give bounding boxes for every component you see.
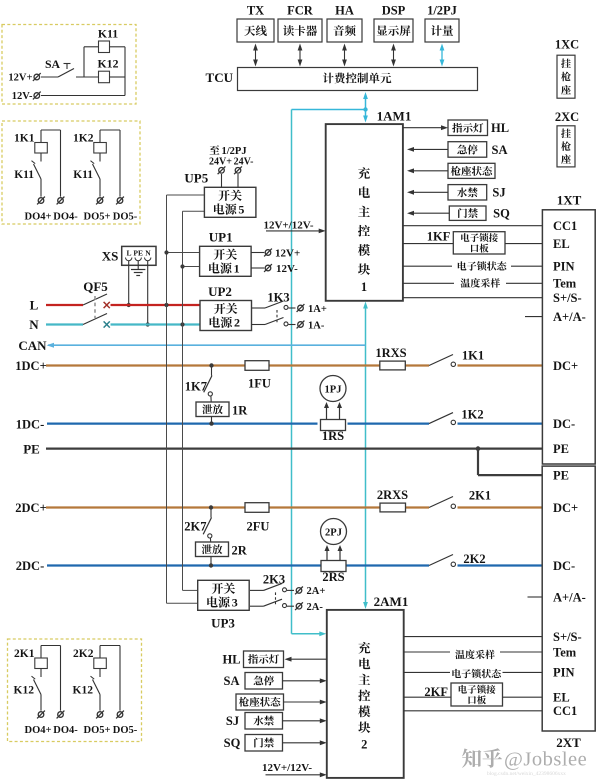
svg-text:2AM1: 2AM1 [374, 594, 409, 609]
svg-text:1A-: 1A- [308, 320, 325, 331]
svg-text:2PJ: 2PJ [325, 527, 342, 538]
svg-text:DSP: DSP [382, 4, 406, 18]
svg-text:1DC+: 1DC+ [15, 359, 46, 373]
svg-text:DC-: DC- [553, 559, 575, 573]
svg-text:1PJ: 1PJ [325, 384, 342, 395]
svg-text:12V+: 12V+ [275, 248, 300, 260]
svg-text:2RXS: 2RXS [377, 488, 408, 502]
svg-text:CC1: CC1 [553, 704, 577, 718]
svg-text:1RS: 1RS [322, 429, 344, 443]
svg-text:HA: HA [335, 4, 354, 18]
svg-text:S+/S-: S+/S- [553, 291, 582, 305]
svg-text:EL: EL [553, 237, 570, 251]
svg-text:2K1: 2K1 [469, 489, 491, 503]
svg-text:UP2: UP2 [208, 284, 232, 299]
svg-text:2FU: 2FU [247, 520, 270, 534]
svg-text:FCR: FCR [287, 4, 314, 18]
svg-text:1DC-: 1DC- [16, 417, 44, 431]
svg-text:PE: PE [553, 468, 569, 482]
svg-text:12V-: 12V- [12, 91, 33, 102]
svg-text:DC+: DC+ [553, 501, 578, 515]
svg-text:1XC: 1XC [555, 38, 579, 52]
svg-text:2A+: 2A+ [307, 586, 326, 597]
svg-text:SA: SA [45, 57, 61, 71]
svg-text:2: 2 [361, 738, 367, 752]
svg-text:1: 1 [361, 280, 367, 294]
svg-text:L: L [30, 298, 39, 313]
svg-text:12V-: 12V- [276, 263, 298, 275]
svg-text:K11: K11 [73, 169, 93, 181]
svg-text:1K2: 1K2 [461, 408, 483, 422]
svg-text:1XT: 1XT [557, 192, 582, 207]
svg-text:DO4-: DO4- [53, 212, 78, 223]
svg-text:1KF: 1KF [427, 230, 451, 244]
svg-text:SA: SA [492, 143, 508, 157]
svg-text:24V-: 24V- [234, 156, 254, 167]
svg-text:DO5+: DO5+ [84, 725, 111, 736]
svg-text:1RXS: 1RXS [375, 346, 406, 360]
svg-text:1K1: 1K1 [14, 133, 35, 145]
svg-text:A+/A-: A+/A- [553, 310, 586, 324]
svg-text:1A+: 1A+ [308, 304, 327, 315]
svg-text:1R: 1R [232, 404, 248, 418]
svg-text:PE: PE [553, 442, 569, 456]
svg-text:1K2: 1K2 [73, 133, 94, 145]
svg-text:PIN: PIN [553, 260, 575, 274]
svg-text:QF5: QF5 [83, 279, 108, 294]
svg-text:3: 3 [232, 596, 238, 610]
svg-text:K11: K11 [98, 27, 118, 41]
svg-text:HL: HL [491, 121, 509, 135]
svg-text:A+/A-: A+/A- [553, 590, 586, 604]
svg-text:DO4+: DO4+ [25, 725, 52, 736]
svg-text:2K3: 2K3 [263, 573, 285, 587]
svg-text:DC-: DC- [553, 417, 575, 431]
svg-text:UP5: UP5 [184, 171, 208, 186]
svg-text:SQ: SQ [224, 736, 241, 750]
svg-text:UP1: UP1 [209, 229, 233, 244]
svg-text:DO4+: DO4+ [25, 212, 52, 223]
svg-text:DO5+: DO5+ [84, 212, 111, 223]
svg-text:N: N [29, 317, 39, 332]
svg-text:XS: XS [102, 249, 119, 264]
svg-text:UP3: UP3 [211, 616, 235, 631]
svg-text:DC+: DC+ [553, 359, 578, 373]
svg-text:K12: K12 [73, 685, 94, 697]
svg-text:@Jobslee: @Jobslee [504, 749, 587, 771]
svg-text:2A-: 2A- [307, 602, 324, 613]
svg-text:2DC-: 2DC- [16, 559, 44, 573]
svg-text:L: L [126, 248, 131, 257]
svg-text:blog.csdn.net/weixin_42398606x: blog.csdn.net/weixin_42398606xxx [487, 771, 566, 777]
svg-text:24V+: 24V+ [209, 156, 232, 167]
svg-text:1AM1: 1AM1 [377, 109, 412, 124]
svg-text:2XC: 2XC [555, 110, 579, 124]
svg-text:5: 5 [238, 203, 244, 217]
svg-text:Tem: Tem [553, 645, 577, 659]
svg-text:SJ: SJ [226, 714, 239, 728]
svg-text:CC1: CC1 [553, 219, 577, 233]
svg-text:DO4-: DO4- [53, 725, 78, 736]
svg-text:12V+/12V-: 12V+/12V- [263, 219, 313, 231]
svg-text:DO5-: DO5- [113, 725, 138, 736]
svg-text:SQ: SQ [493, 207, 510, 221]
svg-text:K11: K11 [14, 169, 34, 181]
svg-text:2K1: 2K1 [14, 648, 35, 660]
svg-text:TX: TX [247, 4, 264, 18]
svg-text:12V+/12V-: 12V+/12V- [262, 762, 312, 774]
svg-text:1/2PJ: 1/2PJ [222, 146, 247, 157]
svg-text:CAN: CAN [18, 338, 47, 353]
svg-text:EL: EL [553, 691, 570, 705]
svg-text:1FU: 1FU [248, 377, 271, 391]
svg-text:PE: PE [23, 441, 40, 456]
svg-text:2: 2 [234, 316, 240, 330]
svg-text:2K2: 2K2 [463, 552, 485, 566]
svg-text:PE: PE [133, 248, 143, 257]
svg-text:DO5-: DO5- [113, 212, 138, 223]
svg-text:2RS: 2RS [322, 570, 344, 584]
svg-text:SA: SA [224, 674, 240, 688]
svg-text:2K7: 2K7 [184, 520, 206, 534]
svg-text:HL: HL [222, 653, 240, 667]
svg-text:1/2PJ: 1/2PJ [427, 4, 457, 18]
svg-text:12V+: 12V+ [8, 73, 32, 84]
svg-text:TCU: TCU [206, 70, 234, 85]
svg-text:1: 1 [234, 262, 240, 276]
svg-text:Tem: Tem [553, 277, 577, 291]
svg-text:1K1: 1K1 [462, 349, 484, 363]
svg-text:K12: K12 [98, 57, 119, 71]
svg-text:2R: 2R [232, 544, 248, 558]
svg-text:SJ: SJ [492, 186, 505, 200]
svg-text:2DC+: 2DC+ [15, 501, 46, 515]
svg-text:PIN: PIN [553, 666, 575, 680]
svg-text:S+/S-: S+/S- [553, 630, 582, 644]
svg-text:N: N [145, 248, 151, 257]
svg-text:2K2: 2K2 [73, 648, 94, 660]
svg-text:K12: K12 [14, 685, 35, 697]
